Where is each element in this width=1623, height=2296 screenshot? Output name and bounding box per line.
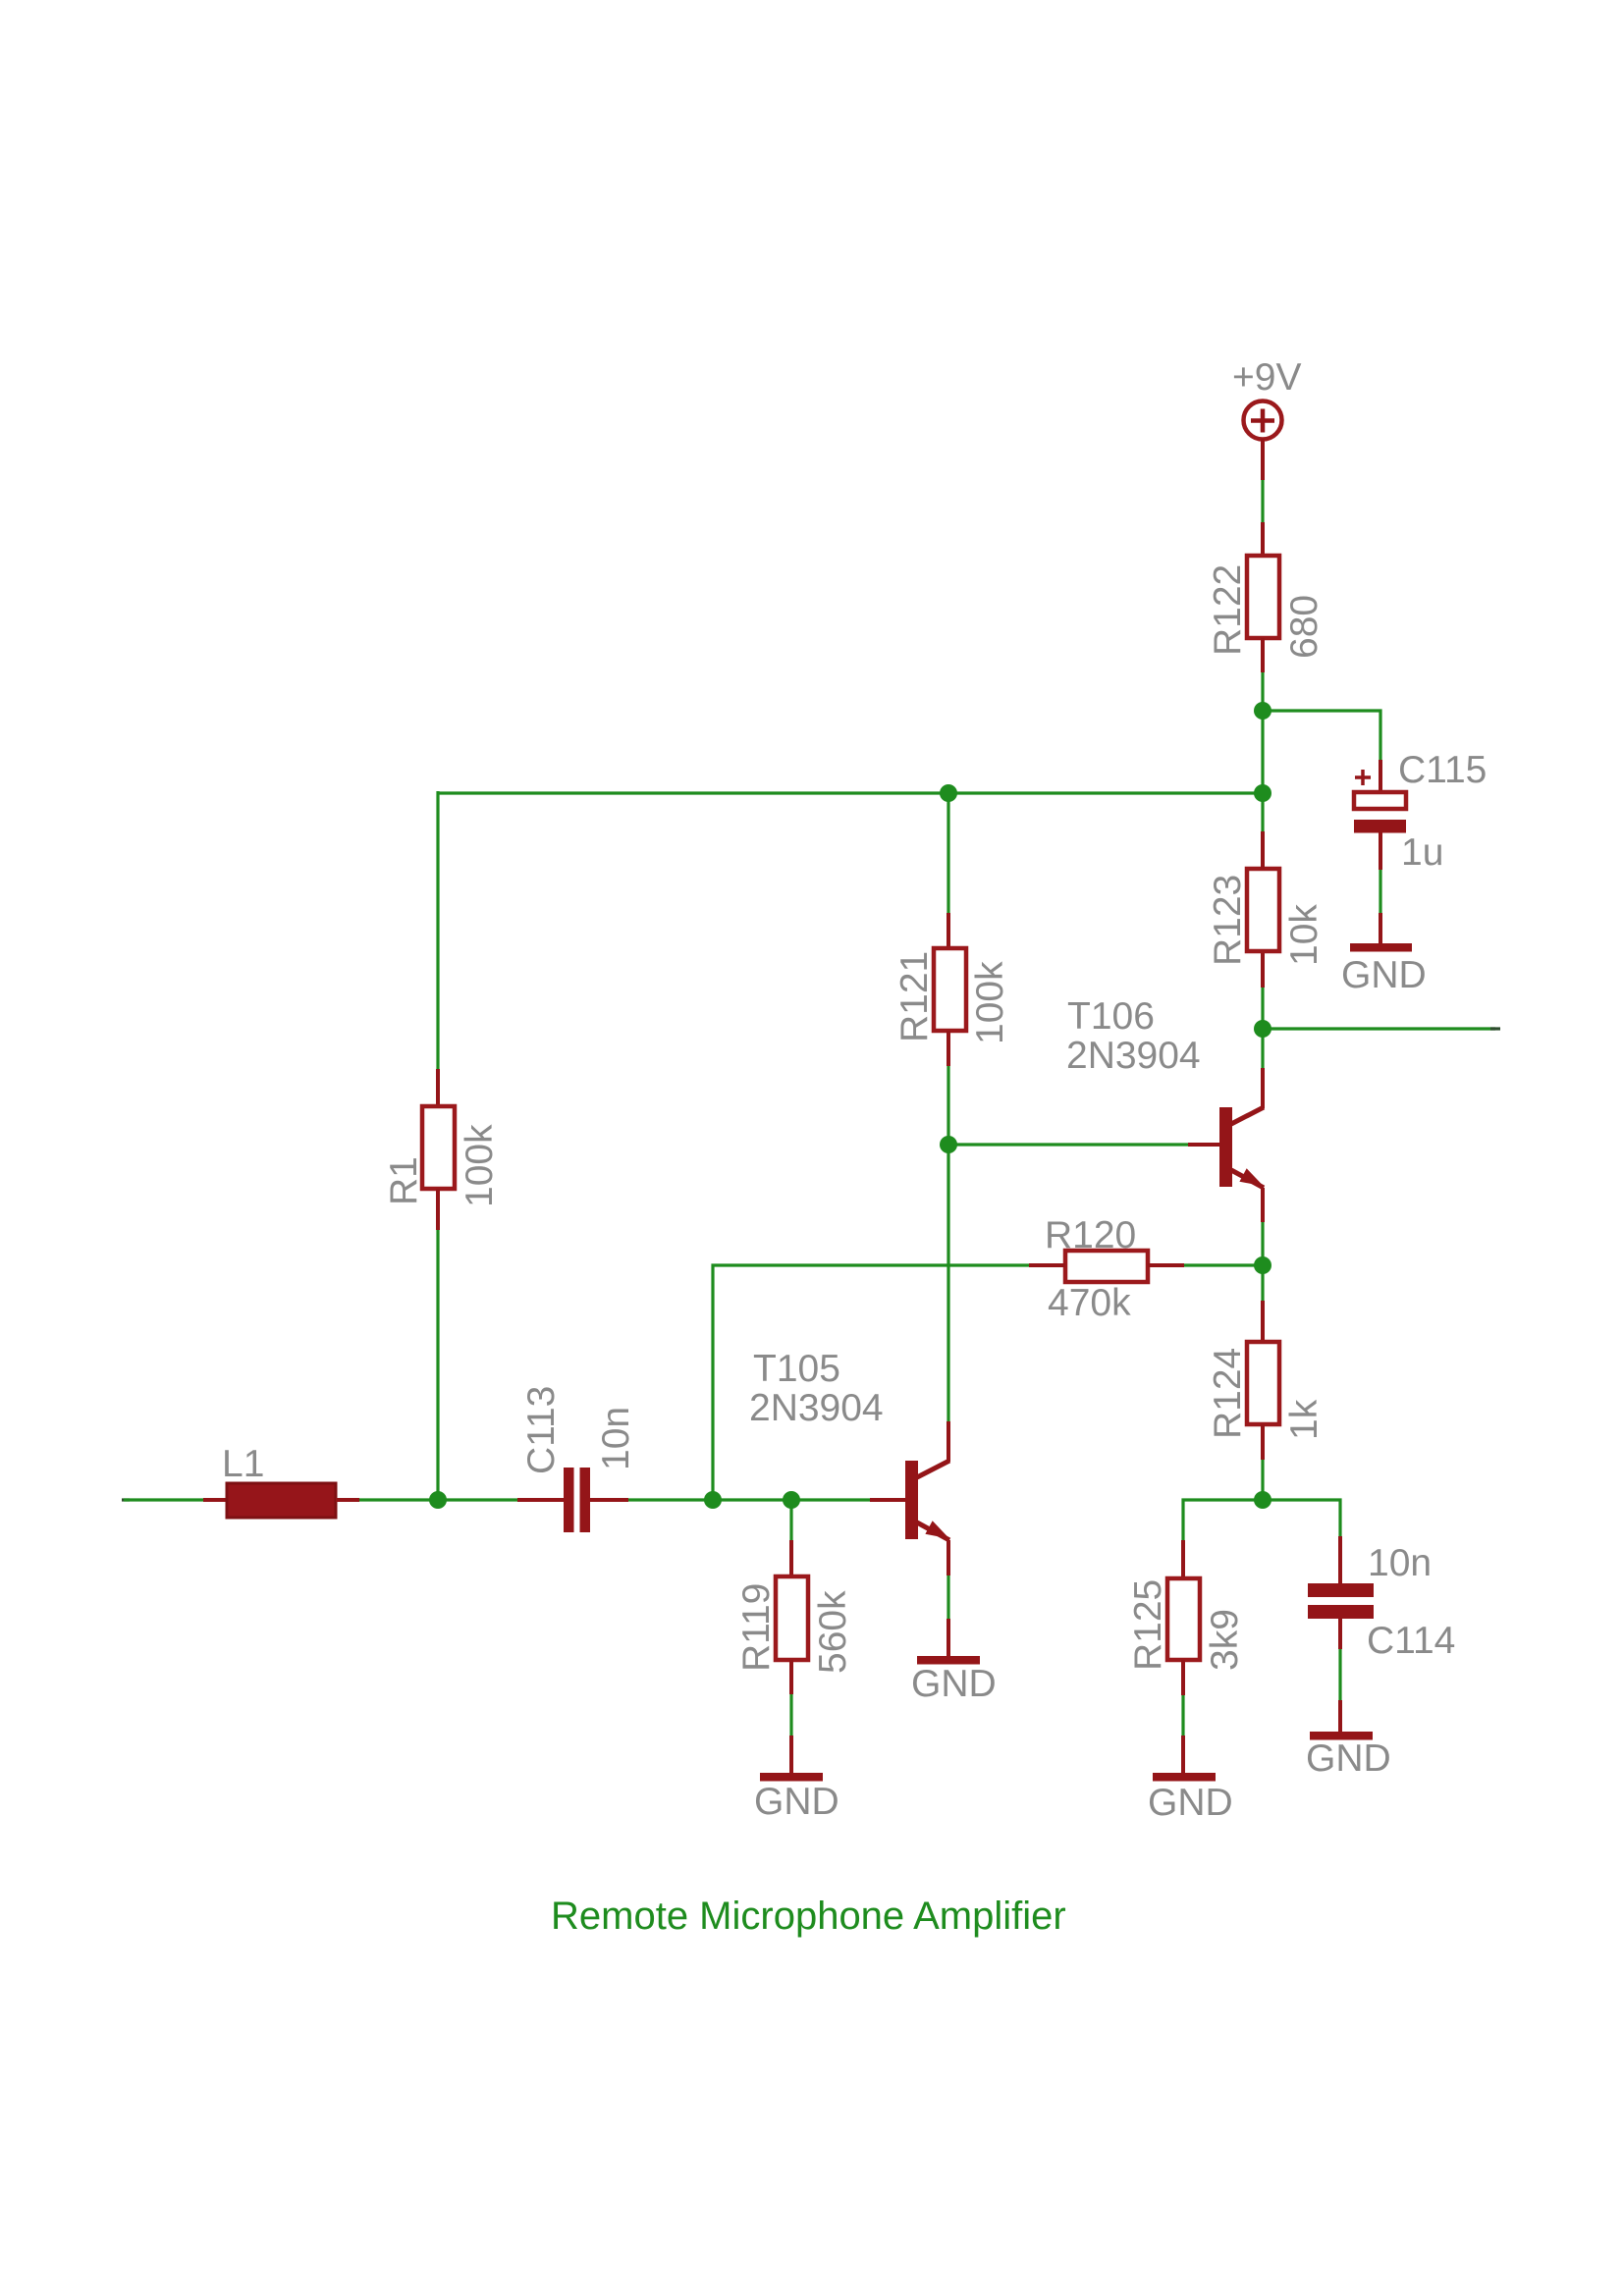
- pin stub +9V to R122: [1261, 439, 1265, 480]
- resistor R121: [934, 948, 966, 1031]
- pin stub GND symbol pin (T105): [947, 1619, 950, 1656]
- wire R123 to output node: [1261, 988, 1264, 1029]
- svg-text:100k: 100k: [459, 1124, 501, 1207]
- junction rail / R122-R123 column: [1254, 784, 1271, 802]
- junction T106 base node: [940, 1136, 957, 1153]
- pin stub GND symbol pin (R119): [789, 1735, 793, 1773]
- wire R121 to T106 base node: [947, 1066, 949, 1421]
- pin stub C115 minus pin: [1379, 832, 1382, 870]
- resistor R119: [776, 1576, 808, 1660]
- inductor L1: [227, 1483, 336, 1518]
- pin stub R125 pin 2: [1181, 1660, 1185, 1695]
- svg-text:GND: GND: [1306, 1737, 1391, 1780]
- svg-text:Remote Microphone Amplifier: Remote Microphone Amplifier: [551, 1895, 1066, 1938]
- ground symbol under R125: [1153, 1773, 1216, 1782]
- wire R120 feedback to input rail: [713, 1265, 1029, 1500]
- wire R125 to GND: [1181, 1695, 1184, 1735]
- resistor R124: [1247, 1342, 1279, 1424]
- wire R1 to input rail: [436, 1230, 439, 1500]
- wire output open end tip: [1490, 1027, 1500, 1030]
- wire rail to R123: [1261, 793, 1264, 831]
- wire R119 to GND: [789, 1694, 792, 1735]
- pin stub R125 pin 1: [1181, 1540, 1185, 1578]
- svg-text:+9V: +9V: [1232, 356, 1301, 399]
- wire T105 emitter to GND: [947, 1575, 949, 1619]
- pin stub L1 pin 2: [336, 1498, 359, 1502]
- wire C113 to T105 base: [628, 1498, 870, 1501]
- svg-text:R119: R119: [735, 1583, 778, 1672]
- pin stub R119 pin 1: [789, 1540, 793, 1576]
- junction node A / C115 tap: [1254, 702, 1271, 720]
- svg-text:GND: GND: [911, 1663, 997, 1705]
- svg-text:C114: C114: [1367, 1620, 1455, 1662]
- junction R120 feedback tap: [704, 1491, 722, 1509]
- svg-text:T106: T106: [1067, 995, 1155, 1038]
- wire R121 top stub from rail: [947, 793, 949, 913]
- pin stub R1 pin 2: [436, 1189, 440, 1230]
- pin stub R119 pin 2: [789, 1660, 793, 1694]
- pin stub R122 pin 2: [1261, 638, 1265, 672]
- pin stub C115 plus pin: [1379, 760, 1382, 793]
- pin stub T105 collector: [947, 1421, 950, 1462]
- svg-text:3k9: 3k9: [1204, 1609, 1246, 1671]
- wire T106 collector to output node: [1261, 1029, 1264, 1068]
- pin stub C113 pin 2: [590, 1498, 628, 1502]
- wire R119 top: [789, 1500, 792, 1540]
- supply symbol +9V: [1244, 401, 1282, 440]
- pin stub R124 pin 1: [1261, 1301, 1265, 1342]
- pin stub R1 pin 1: [436, 1069, 440, 1106]
- junction R119 tap: [783, 1491, 800, 1509]
- svg-text:470k: 470k: [1048, 1282, 1131, 1324]
- junction node B (R120/R124/emitter): [1254, 1256, 1271, 1274]
- resistor R125: [1167, 1578, 1200, 1660]
- pin stub R122 pin 1: [1261, 522, 1265, 556]
- junction bottom node (R125/C114): [1254, 1491, 1271, 1509]
- junction output node: [1254, 1020, 1271, 1038]
- resistor R1: [422, 1106, 455, 1189]
- svg-text:GND: GND: [1148, 1782, 1233, 1824]
- svg-text:R124: R124: [1207, 1348, 1249, 1439]
- plus mark C115 polarity: [1355, 770, 1371, 785]
- pin stub R123 pin 1: [1261, 831, 1265, 869]
- capacitor C113: [564, 1468, 590, 1532]
- wire input net: [124, 1498, 203, 1501]
- svg-text:C115: C115: [1398, 749, 1487, 791]
- pin stub GND symbol pin (C115): [1379, 913, 1382, 943]
- svg-text:R122: R122: [1207, 564, 1249, 656]
- svg-text:R1: R1: [383, 1156, 425, 1205]
- wire input net left end tip: [122, 1498, 130, 1501]
- wire C115 to GND: [1379, 870, 1381, 913]
- svg-text:10k: 10k: [1283, 904, 1325, 966]
- pin stub L1 pin 1: [203, 1498, 227, 1502]
- pin stub C113 pin 1: [517, 1498, 564, 1502]
- pin stub T105 emitter: [947, 1540, 950, 1575]
- resistor R122: [1247, 556, 1279, 638]
- svg-text:560k: 560k: [812, 1590, 854, 1674]
- wire base node to T106: [948, 1143, 1188, 1146]
- wire C114 to GND: [1338, 1649, 1341, 1700]
- capacitor C114: [1308, 1583, 1374, 1619]
- pin stub R120 pin 1: [1029, 1263, 1065, 1267]
- ground symbol under R119: [760, 1773, 823, 1782]
- junction rail / R121 column: [940, 784, 957, 802]
- pin stub T106 collector: [1261, 1068, 1265, 1108]
- svg-text:1k: 1k: [1283, 1399, 1325, 1440]
- pin stub GND symbol pin (C114): [1338, 1700, 1342, 1732]
- wire node A to C115: [1263, 711, 1380, 760]
- pin stub GND symbol pin (R125): [1181, 1735, 1185, 1773]
- resistor R120: [1065, 1251, 1148, 1282]
- pin stub R124 pin 2: [1261, 1424, 1265, 1460]
- svg-text:10n: 10n: [1368, 1542, 1432, 1584]
- svg-text:680: 680: [1283, 595, 1325, 659]
- pin stub R123 pin 2: [1261, 951, 1265, 988]
- pin stub C114 pin 1: [1338, 1536, 1342, 1583]
- junction input node R1 tap: [429, 1491, 447, 1509]
- pin stub C114 pin 2: [1338, 1619, 1342, 1649]
- wire node A vertical R122 to rail: [1261, 672, 1264, 793]
- transistor T105 2N3904: [905, 1461, 949, 1540]
- pin stub R120 pin 2: [1148, 1263, 1184, 1267]
- svg-text:T105: T105: [753, 1348, 840, 1390]
- svg-text:10n: 10n: [595, 1407, 637, 1470]
- ground symbol under C114: [1310, 1732, 1373, 1740]
- svg-text:1u: 1u: [1401, 831, 1443, 874]
- wire rail corner down to R1: [436, 791, 439, 1069]
- svg-text:R125: R125: [1127, 1579, 1169, 1671]
- wire T106 emitter to node B: [1261, 1222, 1264, 1301]
- svg-text:2N3904: 2N3904: [1066, 1035, 1201, 1077]
- wire output net: [1263, 1027, 1495, 1030]
- svg-text:GND: GND: [1341, 954, 1427, 996]
- ground symbol under T105: [917, 1656, 980, 1665]
- svg-text:R120: R120: [1045, 1214, 1136, 1256]
- capacitor C115 polarized: [1354, 792, 1406, 833]
- pin stub R121 pin 1: [947, 913, 950, 948]
- wire R120 to node B: [1184, 1263, 1263, 1266]
- svg-text:L1: L1: [222, 1443, 264, 1485]
- svg-text:C113: C113: [520, 1386, 563, 1474]
- wire +9V net: [1261, 480, 1264, 522]
- svg-text:100k: 100k: [969, 961, 1011, 1044]
- svg-text:R121: R121: [893, 951, 936, 1042]
- pin stub T105 base: [870, 1498, 905, 1502]
- transistor T106 2N3904: [1219, 1107, 1264, 1188]
- svg-text:2N3904: 2N3904: [749, 1387, 884, 1429]
- pin stub R121 pin 2: [947, 1031, 950, 1066]
- pin stub T106 base: [1188, 1143, 1219, 1147]
- ground symbol under C115: [1350, 943, 1412, 952]
- wire R124 to bottom node: [1261, 1460, 1264, 1500]
- upper feedback rail y=808: [438, 791, 1263, 794]
- wire L1 to C113: [359, 1498, 517, 1501]
- wire bottom node rail: [1183, 1500, 1340, 1540]
- resistor R123: [1247, 869, 1279, 951]
- svg-text:GND: GND: [754, 1781, 839, 1823]
- pin stub T106 emitter: [1261, 1188, 1265, 1222]
- svg-text:R123: R123: [1207, 875, 1249, 966]
